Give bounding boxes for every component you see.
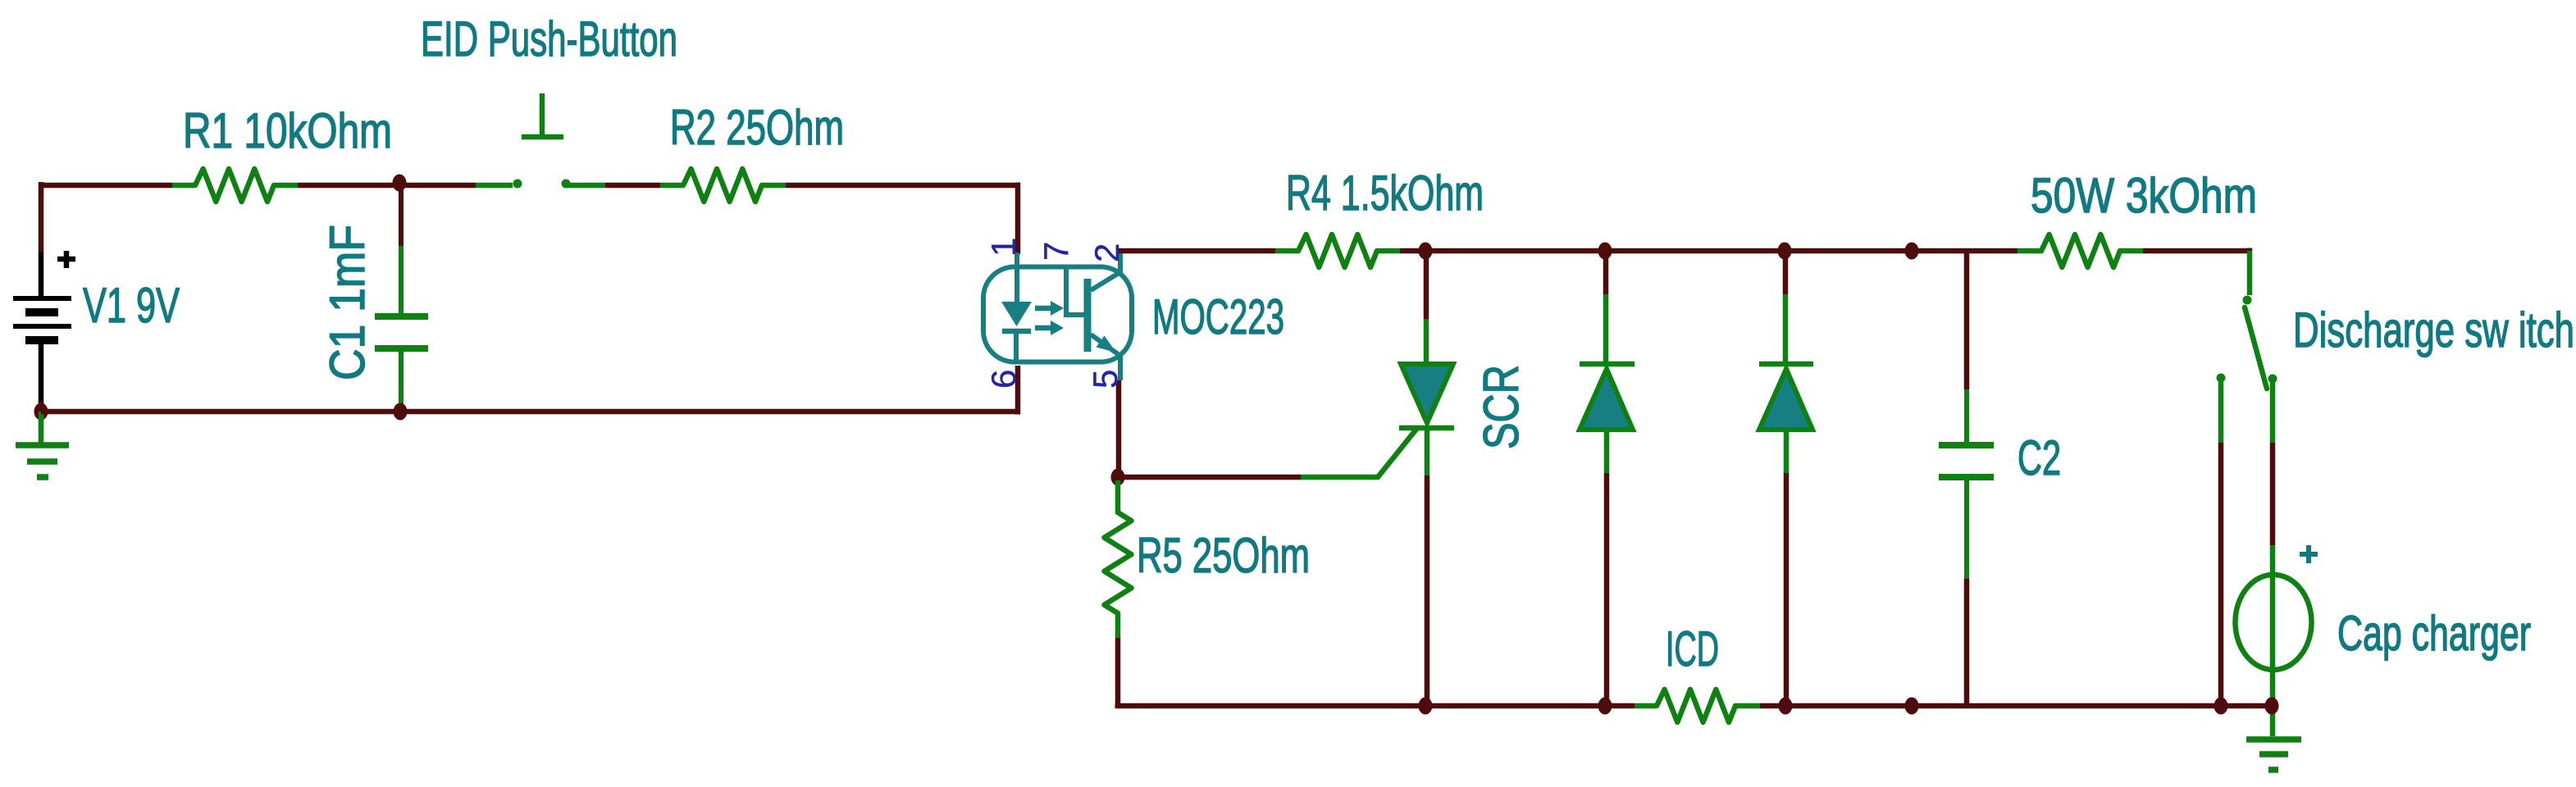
node pin5/R5/gate junction dot	[1111, 469, 1125, 486]
node R4/SCR junction dot	[1419, 243, 1433, 260]
wire R2 to optocoupler pin 1	[786, 183, 1018, 255]
ground (right, below cap charger)	[2246, 739, 2301, 770]
label R4 1.5kOhm	[1286, 166, 1484, 221]
node D2 top junction dot	[1778, 243, 1792, 260]
svg-text:7: 7	[1037, 242, 1075, 261]
label R2 25Ohm	[670, 100, 844, 155]
node bottom rail junction dot	[1905, 698, 1919, 715]
wire discharge switch right terminal down	[2270, 443, 2276, 545]
push-button switch EID	[476, 93, 605, 189]
svg-text:MOC223: MOC223	[1152, 289, 1284, 344]
wire 50W to discharge switch corner	[2143, 248, 2250, 252]
pin 2 label	[1087, 243, 1126, 262]
svg-text:EID Push-Button: EID Push-Button	[421, 11, 677, 66]
wire discharge switch left terminal down	[2218, 443, 2224, 706]
wire C1 top lead	[399, 185, 403, 248]
resistor R5 25Ohm (vertical)	[1105, 480, 1132, 638]
label C1 1mF (rotated)	[320, 225, 375, 380]
svg-text:50W 3kOhm: 50W 3kOhm	[2031, 168, 2257, 223]
wire pin 5 lead down	[1116, 380, 1122, 474]
capacitor C2	[1939, 251, 1994, 706]
LED inside optocoupler	[1001, 252, 1032, 362]
resistor R1 10kOhm	[172, 169, 298, 202]
label V1 9V	[83, 278, 180, 333]
diode D2	[1759, 248, 1813, 706]
node battery bottom junction dot	[34, 403, 48, 421]
svg-text:ICD: ICD	[1666, 621, 1719, 676]
wire battery top lead	[39, 182, 44, 252]
phototransistor inside optocoupler	[1066, 253, 1120, 380]
pin 5 label	[1086, 370, 1124, 389]
label SCR (rotated)	[1474, 365, 1529, 449]
wire gate green segment to SCR	[1301, 427, 1418, 477]
label EID Push-Button	[421, 11, 677, 66]
svg-text:R4 1.5kOhm: R4 1.5kOhm	[1286, 166, 1484, 221]
resistor 50W 3kOhm	[2017, 234, 2143, 267]
wire bottom rail left part	[1115, 703, 1635, 709]
svg-text:C1 1mF: C1 1mF	[320, 225, 375, 380]
label 50W 3kOhm	[2031, 168, 2257, 223]
label Discharge sw itch	[2293, 303, 2574, 357]
svg-text:2: 2	[1087, 243, 1126, 262]
wire pin 2 to right top rail	[1119, 248, 1275, 254]
wire battery bottom lead	[39, 402, 44, 412]
node D1 bottom junction dot	[1598, 698, 1612, 715]
svg-text:C2: C2	[2017, 430, 2061, 485]
svg-text:5: 5	[1086, 370, 1124, 389]
wire R1 to node A	[298, 183, 476, 189]
svg-text:R5 25Ohm: R5 25Ohm	[1137, 528, 1310, 583]
wire bottom rail right part	[1760, 703, 2272, 709]
node D2 bottom junction dot	[1779, 698, 1793, 715]
node SCR bottom junction dot	[1419, 698, 1433, 715]
LED arrows	[1035, 301, 1064, 335]
node C1 bottom junction dot	[394, 403, 408, 421]
wire bottom-left rail	[41, 366, 1018, 415]
svg-text:R2 25Ohm: R2 25Ohm	[670, 100, 844, 155]
pin 1 label	[984, 238, 1023, 257]
resistor R4 1.5kOhm	[1275, 234, 1400, 267]
wire top-left rail battery to R1	[41, 183, 172, 189]
svg-text:1: 1	[984, 238, 1023, 257]
node discharge switch bottom junction dot	[2214, 698, 2228, 715]
node A junction dot C1 top	[393, 175, 407, 192]
node cap charger bottom junction dot	[2265, 698, 2279, 715]
svg-text:6: 6	[984, 370, 1023, 389]
svg-text:Discharge sw itch: Discharge sw itch	[2293, 303, 2574, 357]
resistor ICD	[1635, 689, 1760, 722]
svg-text:V1 9V: V1 9V	[83, 278, 180, 333]
node D1 top junction dot	[1598, 243, 1612, 260]
svg-text:R1 10kOhm: R1 10kOhm	[183, 103, 392, 158]
label R5 25Ohm	[1137, 528, 1310, 583]
node C2 top junction dot	[1905, 243, 1919, 260]
svg-text:SCR: SCR	[1474, 365, 1529, 449]
svg-text:Cap charger: Cap charger	[2337, 606, 2531, 661]
diode D1	[1580, 248, 1635, 706]
label MOC223	[1152, 289, 1284, 344]
wire gate horizontal dark segment	[1118, 475, 1301, 480]
label Cap charger	[2337, 606, 2531, 661]
wire C1 bottom lead	[399, 406, 403, 412]
wire R5 bottom lead	[1115, 638, 1121, 706]
discharge switch	[2217, 251, 2277, 443]
battery V1	[13, 251, 75, 403]
ground (left, below battery)	[16, 412, 69, 477]
resistor R2 25Ohm	[660, 169, 786, 202]
voltage source Cap charger	[2236, 545, 2318, 736]
label C2	[2017, 430, 2061, 485]
capacitor C1 1mF	[375, 246, 428, 407]
op-amp U1 optocoupler MOC223 body	[983, 267, 1132, 362]
transistor Q1 SCR	[1399, 248, 1454, 706]
label R1 10kOhm	[183, 103, 392, 158]
pin 7 label	[1037, 242, 1075, 261]
pin 6 label	[984, 370, 1023, 389]
label ICD	[1666, 621, 1719, 676]
wire right top rail	[1400, 248, 2017, 254]
wire push-button to R2	[605, 183, 660, 189]
